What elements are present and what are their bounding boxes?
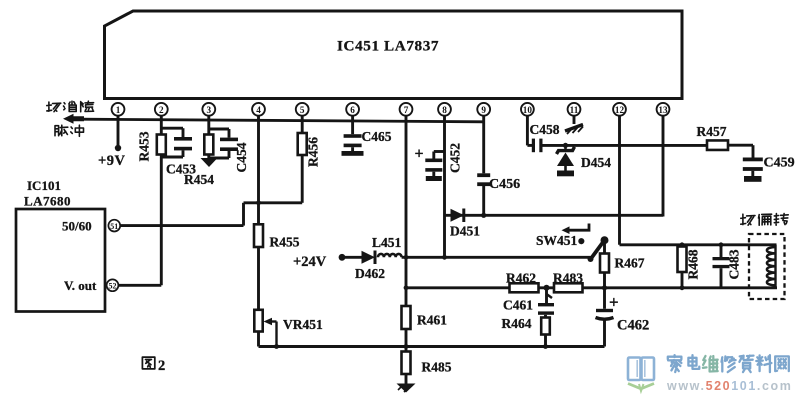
svg-text:+: + — [415, 146, 424, 163]
resistor R454 — [204, 135, 213, 155]
diode D462 — [362, 251, 376, 265]
svg-text:IC101: IC101 — [27, 178, 61, 193]
capacitor C461 — [538, 303, 554, 315]
watermark text 家电维修资料网 — [668, 355, 789, 372]
label C453 — [166, 162, 196, 177]
svg-text:D462: D462 — [355, 266, 385, 281]
ground pin11 chassis ground — [565, 125, 583, 135]
label LA7680 — [24, 194, 71, 209]
svg-text:3: 3 — [207, 105, 212, 115]
wire 50/60 step — [244, 203, 303, 226]
label R456 — [306, 137, 321, 167]
wire R468 bottom — [681, 272, 684, 288]
label + polarity C452 — [415, 146, 424, 163]
svg-text:R455: R455 — [270, 235, 300, 250]
label 场消隐 — [47, 101, 94, 112]
wire VR451 wiper — [264, 318, 277, 347]
wire C453 bottom stub — [161, 150, 183, 157]
svg-text:4: 4 — [256, 105, 261, 115]
svg-text:V. out: V. out — [64, 278, 97, 293]
node junction C483 top — [719, 242, 724, 247]
wire pin5 stub — [301, 115, 304, 133]
wire R468 top — [681, 245, 684, 247]
node +24V dot — [339, 254, 346, 261]
wire C461 stub — [547, 288, 553, 303]
pin 6 of IC451 — [346, 103, 359, 116]
pin 52 of IC101 — [107, 279, 119, 291]
wire R464 bottom — [544, 335, 547, 347]
ground R485 ground — [397, 384, 416, 393]
svg-text:R462: R462 — [506, 271, 536, 286]
svg-text:8: 8 — [442, 105, 447, 115]
svg-text:+24V: +24V — [293, 254, 327, 270]
ground C452 ground bar — [426, 176, 442, 181]
label L451 — [372, 235, 402, 250]
watermark url www.520101.com — [666, 379, 792, 393]
label VR451 — [283, 317, 323, 332]
node junction R467-row — [602, 285, 607, 290]
wire pin6 stub — [351, 115, 354, 134]
wire pin3 stub — [207, 115, 210, 134]
resistor R467 — [600, 254, 609, 273]
wire pin13 vertical — [662, 115, 665, 216]
wire pin10 stub — [527, 115, 532, 145]
label R454 — [184, 172, 214, 187]
switch SW451 actuator mark — [562, 224, 590, 235]
svg-text:2: 2 — [158, 358, 165, 374]
wire pin2 stub — [160, 115, 163, 134]
pin 1 of IC451 — [112, 103, 125, 116]
label R457 — [697, 124, 727, 139]
capacitor C453 — [174, 137, 192, 150]
ground C459 ground bar — [744, 176, 762, 182]
wire pin7 vertical — [405, 115, 408, 306]
wire C461 to R464 — [544, 315, 547, 318]
svg-text:IC451 LA7837: IC451 LA7837 — [337, 38, 439, 55]
wire 24V rail left — [342, 256, 362, 259]
node junction R464-feedback — [543, 344, 548, 349]
svg-text:R453: R453 — [137, 131, 152, 161]
inductor L451 — [378, 254, 402, 257]
pin 8 of IC451 — [438, 103, 451, 116]
pin 51 of IC101 — [108, 220, 120, 232]
wire C483 top — [720, 245, 723, 257]
inductor deflection yoke coil — [749, 234, 785, 299]
node junction pin9-D451 — [481, 213, 486, 218]
label 50/60 — [62, 218, 92, 233]
svg-text:LA7680: LA7680 — [24, 194, 71, 209]
svg-text:2: 2 — [159, 105, 164, 115]
wire C462 top — [603, 288, 606, 309]
label D454 — [581, 155, 611, 170]
pin 4 of IC451 — [252, 103, 265, 116]
pin 9 of IC451 — [477, 103, 490, 116]
label C452 — [448, 143, 463, 173]
svg-text:R456: R456 — [306, 137, 321, 167]
resistor R456 — [298, 133, 307, 155]
capacitor C458 — [532, 139, 543, 153]
svg-text:C465: C465 — [362, 129, 392, 144]
wire D451 row — [445, 214, 664, 217]
svg-text:C462: C462 — [617, 318, 649, 334]
node junction D454 — [563, 143, 568, 148]
wire yoke top row — [620, 243, 777, 246]
node junction pin7-feedback — [404, 344, 409, 349]
wire VR451 bottom — [257, 332, 260, 347]
wire pin1 stub — [117, 115, 120, 148]
svg-text:10: 10 — [523, 105, 533, 115]
wire R485 to ground — [405, 374, 408, 384]
wire R467 top — [603, 240, 606, 253]
resistor R485 — [402, 352, 411, 375]
svg-text:VR451: VR451 — [283, 317, 323, 332]
label C454 — [234, 142, 249, 172]
wire pin8 vertical — [443, 115, 446, 257]
ground D454 ground bar — [557, 171, 574, 177]
pin 3 of IC451 — [202, 103, 215, 116]
label D451 — [450, 224, 480, 239]
wire pin9 stub — [482, 115, 485, 173]
node +9V dot — [115, 145, 121, 151]
svg-text:R457: R457 — [697, 124, 727, 139]
wire C456 down — [482, 186, 485, 215]
node junction step-pin4 — [256, 200, 261, 205]
label R462 — [506, 271, 536, 286]
diode D454 zener — [557, 145, 575, 170]
svg-text:R483: R483 — [553, 271, 583, 286]
svg-text:13: 13 — [658, 105, 668, 115]
wire C453 top stub — [161, 128, 183, 137]
capacitor C452 — [425, 159, 442, 172]
label R485 — [422, 360, 452, 375]
wire V.out row — [118, 284, 161, 287]
label IC101 — [27, 178, 61, 193]
wire feedback mid row — [406, 286, 777, 289]
node blanking-pulse input arrow — [63, 114, 84, 124]
svg-text:SW451●: SW451● — [536, 233, 585, 248]
label 脉冲 — [55, 125, 84, 136]
resistor R462 — [510, 283, 539, 292]
label D462 — [355, 266, 385, 281]
svg-text:C458: C458 — [530, 122, 560, 137]
op-amp IC451 LA7837 main IC box — [105, 11, 683, 99]
op-amp IC101 LA7680 box — [16, 209, 105, 312]
svg-text:6: 6 — [350, 105, 355, 115]
svg-text:5: 5 — [300, 105, 305, 115]
svg-text:R485: R485 — [422, 360, 452, 375]
node junction 24V-pin8 — [442, 255, 447, 260]
wire pin11 stub — [573, 115, 576, 124]
capacitor C456 — [477, 173, 490, 186]
resistor R468 — [678, 247, 687, 273]
svg-text:9: 9 — [481, 105, 486, 115]
svg-text:C456: C456 — [489, 177, 520, 192]
wire C465 bottom stub — [351, 147, 354, 151]
capacitor C462 — [596, 309, 614, 319]
label C456 — [489, 177, 520, 192]
label C458 — [530, 122, 560, 137]
pin 7 of IC451 — [400, 103, 413, 116]
ground C465 ground bar — [342, 151, 364, 156]
svg-text:C483: C483 — [727, 249, 742, 279]
label C462 — [617, 318, 649, 334]
svg-text:C452: C452 — [448, 143, 463, 173]
label C465 — [362, 129, 392, 144]
label + polarity C462 — [609, 293, 619, 312]
node junction R468 bottom — [680, 285, 685, 290]
label V.out — [64, 278, 97, 293]
resistor R455 — [254, 224, 263, 247]
wire pin12 vertical — [618, 115, 621, 244]
wire C459 to ground — [751, 171, 754, 176]
label 场偏转 — [741, 214, 788, 226]
wire 24V rail right — [402, 256, 591, 259]
wire C452 stub — [434, 152, 445, 159]
svg-text:C461: C461 — [503, 298, 533, 313]
label SW451 — [536, 233, 585, 248]
svg-text:1: 1 — [116, 105, 121, 115]
label R468 — [686, 249, 701, 279]
svg-text:R467: R467 — [615, 256, 645, 271]
label R467 — [615, 256, 645, 271]
capacitor C465 — [344, 134, 362, 147]
pin 12 of IC451 — [613, 103, 626, 116]
wire R457 to corner — [728, 145, 753, 157]
wire C462 bottom — [603, 320, 606, 347]
switch SW451 arm — [588, 236, 609, 262]
resistor R483 — [554, 283, 583, 292]
wire 50/60 row — [120, 224, 243, 227]
resistor R464 — [541, 318, 550, 335]
node junction R468 top — [680, 242, 685, 247]
wire 145-row to R457 — [543, 144, 708, 147]
wire pin4 vertical — [257, 115, 260, 224]
wire C454 top stub — [209, 129, 229, 138]
watermark book icon — [628, 358, 654, 392]
label C483 — [727, 249, 742, 279]
svg-text:R461: R461 — [417, 313, 447, 328]
label R455 — [270, 235, 300, 250]
svg-text:52: 52 — [109, 282, 117, 291]
pin 5 of IC451 — [296, 103, 309, 116]
label +9V — [98, 153, 126, 169]
wire R467 bottom — [603, 273, 606, 288]
label +24V — [293, 254, 327, 270]
node pin3 chain end blob — [201, 158, 218, 167]
wire pin2 to V.out — [160, 155, 163, 286]
svg-text:R454: R454 — [184, 172, 214, 187]
capacitor C454 — [220, 138, 238, 151]
svg-text:C454: C454 — [234, 142, 249, 172]
diode D451 — [451, 209, 465, 223]
label R483 — [553, 271, 583, 286]
svg-text:R464: R464 — [502, 316, 532, 331]
svg-text:12: 12 — [615, 105, 625, 115]
pin 10 of IC451 — [521, 103, 534, 116]
wire C483 bottom — [720, 268, 723, 288]
label C461 — [503, 298, 533, 313]
svg-text:D451: D451 — [450, 224, 480, 239]
label C459 — [764, 156, 795, 171]
pin 2 of IC451 — [155, 103, 168, 116]
potentiometer VR451 — [254, 310, 262, 332]
svg-text:50/60: 50/60 — [62, 218, 92, 233]
label 图2 — [142, 357, 165, 374]
svg-text:11: 11 — [570, 105, 579, 115]
wire C454 bottom stub — [209, 151, 229, 159]
svg-text:www.520101.com: www.520101.com — [666, 379, 792, 393]
svg-text:51: 51 — [110, 222, 118, 231]
wire blanking bus — [80, 119, 484, 122]
wire C452 to ground — [432, 172, 435, 176]
node junction 24V-pin7 — [404, 255, 409, 260]
svg-text:+9V: +9V — [98, 153, 126, 169]
wire R461 bottom — [405, 329, 408, 352]
label IC451 LA7837 — [337, 38, 439, 55]
capacitor C483 — [713, 257, 730, 268]
svg-text:L451: L451 — [372, 235, 402, 250]
node junction wiper-bottom — [274, 344, 279, 349]
svg-text:C459: C459 — [764, 156, 795, 171]
pin 11 of IC451 — [568, 103, 581, 116]
wire R455 to VR451 — [257, 247, 260, 310]
wire feedback bottom row — [259, 345, 605, 348]
svg-text:+: + — [609, 293, 619, 312]
resistor R457 — [707, 140, 728, 150]
label R464 — [502, 316, 532, 331]
svg-text:7: 7 — [404, 105, 409, 115]
node junction R462-R483 — [544, 285, 550, 291]
svg-text:R468: R468 — [686, 249, 701, 279]
capacitor C459 — [743, 158, 763, 171]
resistor R461 — [402, 306, 411, 329]
node junction pin7-row — [404, 285, 409, 290]
pin 13 of IC451 — [657, 103, 670, 116]
label R461 — [417, 313, 447, 328]
resistor R453 — [157, 135, 166, 155]
svg-text:D454: D454 — [581, 155, 611, 170]
wire R456 down — [301, 155, 304, 203]
label R453 — [137, 131, 152, 161]
